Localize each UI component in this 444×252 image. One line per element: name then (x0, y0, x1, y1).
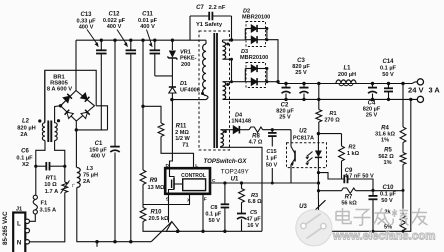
bridge diode TL (63, 94, 72, 103)
svg-text:1 µF: 1 µF (266, 156, 278, 162)
svg-text:1/2 W: 1/2 W (175, 136, 190, 142)
capacitor C11 (154, 40, 156, 50)
wire bias to D4 (221, 129, 234, 131)
transformer core (213, 33, 215, 148)
svg-text:200 µH: 200 µH (338, 72, 356, 78)
svg-text:C6: C6 (21, 149, 29, 155)
svg-text:3 A: 3 A (429, 85, 441, 94)
wire minus bus (76, 129, 107, 131)
watermark text shao (392, 209, 409, 226)
fuse F1 (33, 195, 37, 199)
svg-text:4.7 nF 50 V: 4.7 nF 50 V (345, 174, 374, 180)
svg-text:400 V: 400 V (107, 24, 122, 30)
node C1 bottom (113, 240, 116, 243)
wire R11 branch (143, 106, 161, 123)
svg-text:3.15 A: 3.15 A (40, 208, 57, 214)
svg-text:50 V: 50 V (382, 72, 394, 78)
node drain (170, 98, 173, 101)
ic U1 box (165, 168, 210, 194)
wire L3 top (75, 121, 77, 130)
thermistor RT1 (62, 182, 68, 193)
bridge diamond (61, 91, 95, 122)
wire opto emitter (290, 165, 292, 184)
node opto out 1 (317, 171, 320, 174)
svg-text:MBR20100: MBR20100 (240, 55, 268, 61)
arrow C11 label (147, 30, 152, 45)
TVS VR1 (169, 51, 176, 58)
svg-text:C5: C5 (250, 210, 257, 216)
node C2 bottom (284, 98, 287, 101)
resistor R1 (318, 84, 320, 110)
wire R8 to opto (263, 129, 291, 131)
node D2a out (265, 27, 268, 30)
resistor R2 (339, 146, 345, 161)
svg-text:270 Ω: 270 Ω (324, 118, 340, 124)
svg-text:C14: C14 (382, 59, 394, 65)
node S rail 1 (176, 230, 179, 233)
watermark text fa (374, 208, 390, 225)
svg-text:400 V: 400 V (140, 24, 155, 30)
capacitor C2 (285, 84, 287, 88)
node D2b out (265, 38, 268, 41)
transformer T1 boundary (199, 31, 230, 150)
ic U1 mosfet (170, 168, 175, 178)
rectifier BR1 frame (45, 70, 96, 122)
svg-text:47 µF: 47 µF (246, 216, 261, 222)
node sense top (141, 39, 144, 42)
svg-text:TOP249Y: TOP249Y (221, 169, 250, 176)
wire D3 to rail (267, 81, 278, 83)
node D3a out (265, 67, 268, 70)
secondary winding B (223, 82, 226, 100)
diode D3a (245, 68, 251, 70)
svg-text:D4: D4 (235, 112, 243, 118)
svg-text:6.8 Ω: 6.8 Ω (248, 199, 262, 205)
node secondary A tap (230, 58, 233, 61)
node C11 top (153, 39, 156, 42)
svg-text:TOPSwitch-GX: TOPSwitch-GX (204, 158, 248, 165)
svg-text:L: L (17, 221, 21, 228)
svg-text:1%: 1% (383, 160, 391, 166)
terminal - output (417, 96, 423, 102)
resistor R9 (140, 170, 146, 185)
svg-text:D2: D2 (243, 9, 250, 15)
svg-text:R1: R1 (329, 111, 336, 117)
svg-text:75 µH: 75 µH (83, 173, 98, 179)
svg-text:N: N (17, 239, 22, 246)
node R6 bottom (402, 230, 405, 233)
svg-text:R4: R4 (381, 125, 389, 131)
primary winding (205, 40, 207, 44)
wire R9 to R10 (142, 185, 144, 208)
wire D3 anodes (244, 69, 246, 82)
svg-text:200: 200 (181, 62, 190, 68)
wire primary return rail (76, 241, 151, 243)
node C12 bottom (129, 240, 132, 243)
choke L2 right (55, 123, 58, 141)
svg-text:R7: R7 (345, 194, 353, 200)
wire output + rail (278, 83, 412, 85)
diode D4 (233, 126, 239, 134)
wire drain to primary (172, 99, 206, 101)
svg-text:R10: R10 (150, 210, 162, 216)
wire - drop (319, 99, 411, 231)
capacitor C13 (100, 40, 102, 50)
node C4 top (371, 82, 374, 85)
wire F pin (202, 194, 204, 232)
shunt regulator U3 (312, 200, 326, 213)
node D3 rail join (276, 80, 279, 83)
node C10 top (371, 189, 374, 192)
watermark text zi (354, 210, 371, 226)
node C6 left (34, 165, 37, 168)
svg-text:U1: U1 (231, 177, 239, 183)
resistor R8 (249, 127, 262, 132)
wire L2 left riser (44, 70, 46, 122)
svg-text:4.7 Ω: 4.7 Ω (249, 140, 263, 146)
svg-text:1.7 A: 1.7 A (45, 189, 58, 195)
svg-text:F1: F1 (41, 201, 48, 207)
wire secondary top out (223, 39, 246, 41)
svg-text:D3: D3 (241, 49, 248, 55)
secondary winding A (222, 40, 224, 42)
wire D2 cathodes (266, 29, 268, 40)
svg-text:D: D (166, 163, 170, 169)
node - drop (409, 98, 412, 101)
svg-text:D1: D1 (180, 81, 187, 87)
node R4 top (401, 82, 404, 85)
diode D2b (245, 39, 251, 41)
node C6 right (63, 165, 66, 168)
svg-text:1%: 1% (381, 138, 389, 144)
wire R7 right (356, 190, 404, 192)
opto LED (317, 134, 319, 151)
svg-text:1N4148: 1N4148 (231, 119, 251, 125)
wire R7 left (319, 190, 342, 192)
watermark text dian (336, 208, 351, 224)
capacitor C6 (36, 165, 47, 167)
bias phase dot (224, 130, 227, 133)
node R11 branch (141, 105, 144, 108)
node S rail 2 (223, 230, 226, 233)
wire S pin (168, 194, 170, 223)
svg-text:BR1: BR1 (53, 74, 65, 80)
wire VR1 to D1 (171, 58, 173, 87)
node C3 top (302, 82, 305, 85)
node bridge left (59, 104, 62, 107)
wire D2 to rail (267, 40, 278, 84)
svg-text:R5: R5 (384, 148, 392, 154)
node C1 top (113, 39, 116, 42)
arrow C12 label (117, 30, 127, 45)
svg-text:www.elecfans.com: www.elecfans.com (332, 231, 435, 243)
svg-text:RT1: RT1 (46, 176, 57, 182)
svg-text:2A: 2A (83, 179, 90, 185)
wire L2 right to RT1 (55, 141, 65, 167)
node opto out 2 (317, 181, 320, 184)
svg-text:50 V: 50 V (208, 218, 220, 224)
diode D3 package (246, 63, 266, 88)
svg-text:R2: R2 (348, 145, 355, 151)
node C12 top (129, 39, 132, 42)
svg-text:RS805: RS805 (50, 81, 69, 87)
secondary A phase dot (226, 43, 229, 46)
wire L3 bottom (76, 188, 78, 242)
svg-text:U3: U3 (299, 204, 307, 210)
choke L2 core (47, 121, 49, 143)
capacitor C8 (224, 183, 226, 204)
svg-text:R8: R8 (252, 133, 260, 139)
node C13 top (100, 39, 103, 42)
wire C6 to F1 (35, 166, 37, 195)
L2 phase dot right (57, 119, 60, 122)
svg-text:25 V: 25 V (279, 115, 291, 121)
svg-text:25 V: 25 V (295, 70, 307, 76)
svg-text:C10: C10 (382, 185, 394, 191)
svg-text:L3: L3 (87, 166, 94, 172)
resistor R10 (140, 208, 146, 222)
node C15 top (271, 128, 274, 131)
svg-text:P6KE-: P6KE- (180, 56, 197, 62)
bridge diode BL (65, 110, 74, 119)
svg-text:2A: 2A (20, 132, 27, 138)
wire L2 left to C6 (36, 141, 45, 167)
svg-text:8 A 600 V: 8 A 600 V (47, 87, 72, 93)
svg-text:L2: L2 (22, 119, 30, 125)
wire C9 to node (351, 179, 373, 190)
svg-text:400 V: 400 V (79, 25, 94, 31)
opto light arrows (307, 152, 313, 163)
svg-text:0.1 µF: 0.1 µF (380, 192, 397, 198)
wire RT1 to N (30, 193, 65, 242)
wire X pin (143, 194, 190, 205)
svg-text:R3: R3 (251, 193, 258, 199)
wire secondary A tap (223, 59, 232, 81)
capacitor C12 (130, 40, 132, 50)
inductor L1 (336, 80, 356, 84)
svg-text:T1: T1 (182, 143, 190, 149)
wire return diagonal (151, 222, 172, 242)
capacitor C14 (388, 84, 390, 89)
svg-text:t°: t° (72, 183, 75, 188)
svg-text:1 kΩ: 1 kΩ (347, 151, 360, 157)
svg-text:PC817A: PC817A (293, 135, 314, 141)
svg-text:L1: L1 (343, 66, 351, 72)
junction triangle (166, 222, 179, 232)
node C2 top (284, 82, 287, 85)
wire D2 anodes (244, 29, 246, 41)
svg-text:150 µF: 150 µF (89, 147, 107, 153)
node opto out 3 (317, 189, 320, 192)
svg-text:24 V: 24 V (408, 85, 425, 94)
node C8 top (223, 181, 226, 184)
diode D3b (245, 81, 251, 83)
svg-text:VR1: VR1 (180, 50, 191, 56)
wire L2 right riser (55, 106, 61, 123)
capacitor C3 (303, 84, 305, 88)
svg-text:56 kΩ: 56 kΩ (341, 201, 357, 207)
svg-text:0.1 µF: 0.1 µF (380, 66, 397, 72)
optocoupler U2 box (287, 143, 327, 168)
svg-text:C13: C13 (80, 12, 92, 18)
resistor R5 (400, 153, 406, 165)
node C14 top (387, 82, 390, 85)
node C10 bottom (372, 230, 375, 233)
node opto anode (317, 132, 320, 135)
wire R10 bottom (143, 222, 262, 232)
node S junction (176, 230, 179, 233)
wire VR1 top (171, 40, 173, 50)
svg-text:MBR20100: MBR20100 (242, 15, 270, 21)
svg-text:50 V: 50 V (266, 162, 278, 168)
diode D2a (245, 28, 251, 30)
node C14 bottom (387, 98, 390, 101)
label C15 (262, 147, 283, 169)
svg-text:L: L (195, 163, 198, 169)
secondary B phase dot (226, 83, 229, 86)
wire top DC+ rail (76, 39, 206, 41)
wire C pin (210, 182, 319, 184)
node D3 tap join (230, 80, 233, 83)
wire R4 drop (402, 84, 404, 128)
svg-text:2 MΩ: 2 MΩ (175, 130, 189, 136)
svg-text:R9: R9 (150, 178, 158, 184)
svg-text:U2: U2 (299, 128, 307, 134)
inductor L3 (77, 168, 80, 188)
svg-text:10 Ω: 10 Ω (44, 182, 57, 188)
svg-text:X2: X2 (22, 162, 29, 168)
resistor R3 (241, 183, 243, 189)
L2 phase dot left (38, 119, 41, 122)
wire opto collector (290, 130, 292, 147)
wire R2 bottom (341, 161, 343, 179)
wire R5 down (402, 165, 404, 191)
node return stub (95, 240, 98, 243)
wire drain to D pin (170, 100, 173, 169)
capacitor C4 (372, 84, 374, 88)
svg-text:820 µH: 820 µH (17, 125, 35, 131)
bridge diode BR (81, 110, 90, 119)
resistor R11 (158, 123, 164, 137)
svg-text:20.5 kΩ: 20.5 kΩ (148, 216, 169, 222)
svg-text:2.2 nF: 2.2 nF (209, 5, 226, 11)
capacitor C9 (343, 175, 345, 184)
svg-text:C8: C8 (210, 205, 217, 211)
node C15 bottom (271, 182, 274, 185)
wire D1 to drain node (171, 93, 173, 100)
terminal + output (417, 79, 423, 85)
watermark text you (412, 208, 428, 225)
wire R11 to L pin (161, 137, 194, 169)
wire opto anode branch (318, 133, 341, 135)
resistor R4 (400, 127, 406, 143)
capacitor C10 (372, 190, 374, 195)
svg-text:C1: C1 (95, 141, 103, 147)
capacitor C1 (114, 40, 116, 146)
svg-text:C12: C12 (108, 12, 120, 18)
node C7 secondary (230, 38, 233, 41)
wire R4-R5 (402, 143, 404, 153)
wire F1 to L (30, 214, 35, 221)
watermark logo (296, 210, 332, 246)
ic U1 control block (183, 179, 206, 191)
svg-text:13 MΩ: 13 MΩ (148, 185, 165, 191)
capacitor C15 (271, 130, 273, 133)
bias winding (221, 130, 224, 147)
svg-text:400 V: 400 V (91, 154, 106, 160)
wire output - rail (223, 98, 418, 100)
node TL431 anode (317, 230, 320, 233)
choke L2 left (42, 123, 45, 141)
svg-text:16 V: 16 V (247, 223, 259, 229)
svg-text:Y1 Safety: Y1 Safety (196, 22, 223, 28)
resistor R7 (342, 188, 356, 193)
svg-text:R11: R11 (176, 124, 187, 130)
wire C9 branch (319, 173, 345, 179)
node C4 bottom (371, 98, 374, 101)
wire C6 to RT1 (64, 166, 66, 182)
svg-text:85-265 VAC: 85-265 VAC (2, 211, 9, 245)
capacitor C7 (189, 16, 191, 40)
node D3b out (265, 80, 268, 83)
node R3 top (240, 181, 243, 184)
svg-text:0.1 µF: 0.1 µF (16, 155, 33, 161)
node C3 bottom (302, 98, 305, 101)
node R1 top (317, 82, 320, 85)
capacitor C5 (241, 203, 243, 214)
node VR1 top (171, 39, 174, 42)
diode D1 (169, 86, 176, 88)
svg-text:25 V: 25 V (366, 113, 378, 119)
bridge diode TR (81, 93, 90, 102)
node bridge minus (75, 128, 78, 131)
wire D3 input (223, 81, 246, 83)
svg-text:50 V: 50 V (381, 198, 393, 204)
svg-text:C7: C7 (196, 5, 204, 11)
opto transistor (294, 151, 296, 162)
node F rail (201, 230, 204, 233)
node fb (402, 189, 405, 192)
svg-text:UF4006: UF4006 (180, 88, 200, 94)
svg-text:C15: C15 (266, 149, 276, 155)
wire sense line (142, 40, 144, 170)
wire bias return (221, 147, 263, 232)
resistor R6 (402, 190, 404, 214)
svg-text:F: F (204, 196, 207, 202)
primary phase dot (201, 92, 204, 95)
wire D3 cathodes (266, 69, 268, 82)
wire bridge+ riser (75, 40, 77, 91)
svg-text:0.1 µF: 0.1 µF (205, 212, 222, 218)
arrow C13 label (87, 30, 98, 45)
connector J1 (13, 213, 25, 252)
svg-text:C11: C11 (142, 12, 153, 18)
diode D2 package (246, 22, 266, 47)
